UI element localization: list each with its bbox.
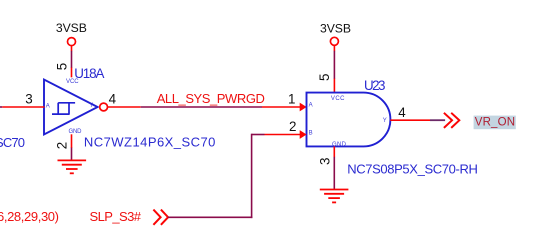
svg-text:2: 2	[55, 142, 70, 149]
svg-text:Y: Y	[89, 103, 93, 109]
svg-text:U18A: U18A	[74, 66, 104, 81]
svg-text:VR_ON: VR_ON	[475, 117, 515, 129]
svg-text:5: 5	[55, 63, 70, 70]
svg-text:GND: GND	[69, 129, 83, 135]
svg-text:Y: Y	[383, 118, 387, 124]
svg-text:4: 4	[109, 92, 117, 107]
svg-text:3: 3	[25, 92, 32, 107]
svg-text:SLP_S3#: SLP_S3#	[90, 209, 142, 224]
svg-text:U23: U23	[364, 78, 385, 93]
svg-text:A: A	[46, 104, 50, 110]
svg-text:3: 3	[318, 158, 333, 165]
svg-text:VCC: VCC	[331, 96, 345, 102]
svg-text:1: 1	[288, 91, 295, 106]
svg-text:2: 2	[289, 119, 296, 134]
svg-text:ALL_SYS_PWRGD: ALL_SYS_PWRGD	[157, 91, 265, 106]
svg-text:3VSB: 3VSB	[56, 21, 87, 35]
svg-text:B: B	[309, 131, 313, 137]
svg-text:5: 5	[317, 73, 332, 80]
svg-text:4: 4	[398, 105, 406, 120]
svg-text:6,28,29,30): 6,28,29,30)	[0, 209, 59, 224]
svg-text:A: A	[309, 103, 313, 109]
svg-text:SC70: SC70	[0, 135, 25, 150]
svg-text:NC7S08P5X_SC70-RH: NC7S08P5X_SC70-RH	[347, 162, 478, 177]
svg-text:3VSB: 3VSB	[320, 22, 351, 36]
svg-text:NC7WZ14P6X_SC70: NC7WZ14P6X_SC70	[84, 134, 216, 149]
